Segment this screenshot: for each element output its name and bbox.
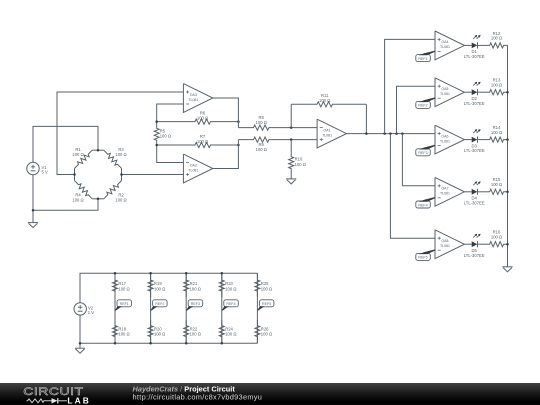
svg-text:5 V: 5 V <box>42 170 48 175</box>
svg-text:OA2: OA2 <box>190 163 197 167</box>
svg-text:REF5: REF5 <box>418 256 427 260</box>
svg-text:100 Ω: 100 Ω <box>190 332 201 337</box>
svg-text:100 Ω: 100 Ω <box>491 36 502 41</box>
svg-text:100 Ω: 100 Ω <box>154 286 165 291</box>
svg-text:100 Ω: 100 Ω <box>261 332 272 337</box>
svg-text:100 Ω: 100 Ω <box>491 82 502 87</box>
svg-text:100 Ω: 100 Ω <box>160 134 171 139</box>
svg-text:100 Ω: 100 Ω <box>118 286 129 291</box>
svg-text:100 Ω: 100 Ω <box>491 182 502 187</box>
svg-text:LTL-307EE: LTL-307EE <box>464 148 485 153</box>
svg-text:LTL-307EE: LTL-307EE <box>464 253 485 258</box>
svg-text:TL081: TL081 <box>440 244 450 248</box>
svg-text:TL081: TL081 <box>440 139 450 143</box>
svg-text:100 Ω: 100 Ω <box>261 286 272 291</box>
svg-text:100 Ω: 100 Ω <box>118 332 129 337</box>
svg-text:OA8: OA8 <box>441 239 448 243</box>
svg-text:1 V: 1 V <box>88 310 94 315</box>
svg-text:100 Ω: 100 Ω <box>225 332 236 337</box>
svg-text:100 Ω: 100 Ω <box>491 234 502 239</box>
svg-text:OA5: OA5 <box>441 87 448 91</box>
svg-text:100 Ω: 100 Ω <box>72 152 83 157</box>
svg-text:REF3: REF3 <box>191 302 200 306</box>
svg-text:100 Ω: 100 Ω <box>256 147 267 152</box>
svg-text:OA6: OA6 <box>441 134 448 138</box>
svg-text:TL081: TL081 <box>440 45 450 49</box>
svg-text:100 Ω: 100 Ω <box>197 116 208 121</box>
svg-text:OA1: OA1 <box>324 128 331 132</box>
svg-text:LAB: LAB <box>67 395 91 405</box>
svg-text:REF1: REF1 <box>120 302 129 306</box>
svg-text:TL081: TL081 <box>440 192 450 196</box>
svg-text:100 Ω: 100 Ω <box>154 332 165 337</box>
svg-text:100 Ω: 100 Ω <box>295 162 306 167</box>
svg-text:100 Ω: 100 Ω <box>190 286 201 291</box>
svg-text:100 Ω: 100 Ω <box>225 286 236 291</box>
svg-text:http://circuitlab.com/c8x7vbd9: http://circuitlab.com/c8x7vbd93emyu <box>133 393 263 402</box>
svg-text:REF2: REF2 <box>418 104 427 108</box>
svg-text:LTL-307EE: LTL-307EE <box>464 200 485 205</box>
svg-text:REF4: REF4 <box>226 302 235 306</box>
svg-text:REF1: REF1 <box>418 57 427 61</box>
svg-text:TL081: TL081 <box>322 133 332 137</box>
svg-text:100 Ω: 100 Ω <box>115 152 126 157</box>
svg-text:100 Ω: 100 Ω <box>72 198 83 203</box>
svg-text:OA4: OA4 <box>441 40 448 44</box>
svg-text:REF4: REF4 <box>418 203 427 207</box>
svg-text:LTL-307EE: LTL-307EE <box>464 54 485 59</box>
svg-text:100 Ω: 100 Ω <box>491 130 502 135</box>
svg-text:100 Ω: 100 Ω <box>319 98 330 103</box>
svg-text:OA3: OA3 <box>190 93 197 97</box>
svg-text:100 Ω: 100 Ω <box>197 139 208 144</box>
svg-text:100 Ω: 100 Ω <box>256 120 267 125</box>
svg-text:REF3: REF3 <box>418 151 427 155</box>
svg-text:OA7: OA7 <box>441 187 448 191</box>
svg-text:TL081: TL081 <box>188 98 198 102</box>
svg-text:REF2: REF2 <box>155 302 164 306</box>
svg-text:TL081: TL081 <box>188 168 198 172</box>
svg-text:LTL-307EE: LTL-307EE <box>464 101 485 106</box>
svg-text:REF5: REF5 <box>262 302 271 306</box>
svg-text:100 Ω: 100 Ω <box>115 198 126 203</box>
svg-text:TL081: TL081 <box>440 92 450 96</box>
